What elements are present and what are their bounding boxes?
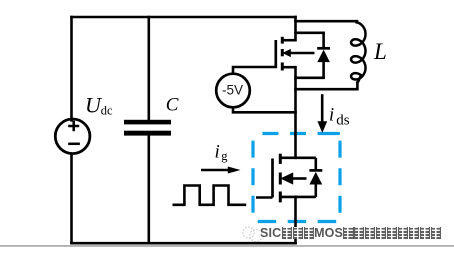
svg-text:i: i bbox=[215, 142, 220, 163]
svg-text:dc: dc bbox=[101, 104, 113, 118]
svg-text:-5V: -5V bbox=[222, 83, 243, 98]
svg-text:L: L bbox=[373, 39, 387, 64]
svg-text:C: C bbox=[166, 94, 179, 115]
svg-text:g: g bbox=[221, 149, 228, 163]
svg-text:i: i bbox=[329, 106, 334, 126]
svg-text:ds: ds bbox=[336, 112, 350, 128]
